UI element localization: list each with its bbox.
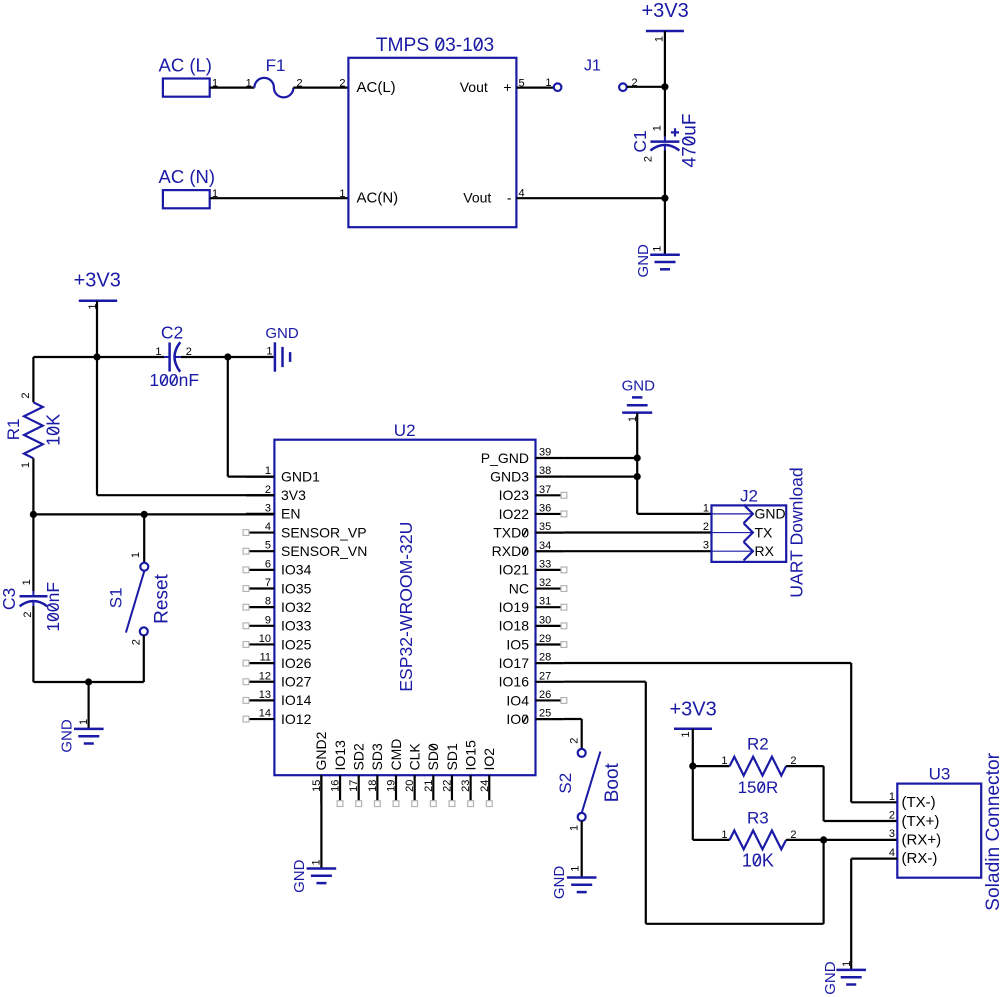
wire J1 to +3V3 node [627,86,665,88]
U2 pin 14 IO12 [246,718,274,720]
svg-text:1: 1 [654,36,666,42]
svg-text:SD1: SD1 [444,743,460,770]
power module TMPS 03-103 [376,35,494,56]
svg-text:5: 5 [265,540,271,552]
svg-text:39: 39 [539,447,551,459]
svg-text:Soladin Connector: Soladin Connector [983,752,1000,910]
switch S2 Boot [578,749,586,757]
svg-text:29: 29 [539,633,551,645]
svg-text:+3V3: +3V3 [74,269,121,291]
U2 pin 12 IO27 [246,681,274,683]
svg-text:NC: NC [509,580,529,596]
svg-text:IO21: IO21 [499,562,530,578]
svg-text:30: 30 [539,614,551,626]
U2 pin 7 IO35 [246,587,274,589]
svg-text:C2: C2 [161,323,183,343]
svg-text:IO13: IO13 [332,740,348,771]
svg-text:35: 35 [539,521,551,533]
svg-text:IO22: IO22 [499,506,530,522]
U2 pin 38 GND3 [536,476,564,478]
resistor R3 10K [693,839,730,841]
svg-text:IO33: IO33 [281,618,312,634]
svg-text:2: 2 [790,755,796,767]
svg-text:U2: U2 [394,421,416,440]
svg-text:GND: GND [59,719,76,753]
svg-text:GND1: GND1 [281,468,320,484]
U2 pin 6 IO34 [246,569,274,571]
U2 pin 35 TXD0 [536,531,564,533]
svg-text:13: 13 [259,689,271,701]
svg-text:1: 1 [339,188,345,200]
svg-text:19: 19 [386,780,398,792]
U2 pin 21 SD0 [432,775,434,803]
svg-text:S1: S1 [107,587,126,608]
wire P_GND [564,457,637,459]
svg-text:10: 10 [259,633,271,645]
wire TXD0 to J2 [564,531,712,533]
U2 pin 25 IO0 [536,718,564,720]
svg-text:4: 4 [889,847,895,859]
U2 pin 19 CMD [395,775,397,803]
wire ground to J2 [636,413,638,514]
svg-text:SD2: SD2 [351,743,367,770]
svg-text:2: 2 [339,78,345,90]
svg-text:GND: GND [291,859,308,893]
svg-text:2: 2 [265,484,271,496]
svg-text:TMPS 03-103: TMPS 03-103 [376,35,494,56]
svg-text:C1: C1 [630,130,650,152]
svg-text:Vout +: Vout + [460,79,512,95]
svg-text:27: 27 [539,670,551,682]
svg-text:1: 1 [889,791,895,803]
wire to ground [87,682,89,729]
U2 pin 4 SENSOR_VP [246,531,274,533]
svg-text:AC (L): AC (L) [159,55,212,76]
junction node S1/EN [141,511,148,518]
svg-text:GND: GND [822,961,839,995]
svg-text:1: 1 [78,719,90,725]
wire AC L to fuse [210,86,255,88]
resistor R2 150R [693,765,730,767]
svg-text:1: 1 [130,552,142,558]
svg-text:2: 2 [20,392,32,398]
svg-text:2: 2 [22,611,34,617]
svg-text:IO27: IO27 [281,674,312,690]
svg-text:GND: GND [635,244,652,278]
U2 pin 22 SD1 [451,775,453,803]
svg-text:IO23: IO23 [499,487,530,503]
junction node GND rail [85,678,92,685]
svg-text:GND3: GND3 [490,468,529,484]
svg-text:(TX+): (TX+) [902,813,940,830]
svg-text:IO4: IO4 [506,692,529,708]
U2 pin 20 CLK [414,775,416,803]
ground (GND2) [307,867,337,870]
svg-text:33: 33 [539,558,551,570]
svg-text:F1: F1 [266,56,286,75]
U2 pin 2 3V3 [246,494,274,496]
U2 pin 30 IO18 [536,625,564,627]
U2 pin 1 GND1 [246,476,274,478]
svg-text:IO2: IO2 [481,748,497,771]
svg-text:1: 1 [20,462,32,468]
U2 pin 31 IO19 [536,606,564,608]
wire IO16 route [564,681,646,683]
svg-text:R3: R3 [747,808,769,827]
svg-text:1: 1 [246,78,252,90]
wire fuse to TMPS [293,86,348,88]
wire top rail [33,356,164,358]
svg-text:10K: 10K [44,414,64,446]
svg-text:1: 1 [841,961,853,967]
U2 pin 11 IO26 [246,662,274,664]
U2 pin 37 IO23 [536,494,564,496]
svg-text:ESP32-WROOM-32U: ESP32-WROOM-32U [396,522,416,692]
U2 pin 3 EN [246,513,274,515]
svg-text:SENSOR_VP: SENSOR_VP [281,524,367,540]
U2 pin 9 IO33 [246,625,274,627]
svg-text:1: 1 [311,859,323,865]
svg-text:1: 1 [680,731,692,737]
svg-text:24: 24 [479,780,491,792]
wire C1 to GND node [664,150,666,254]
svg-text:2: 2 [790,829,796,841]
svg-text:EN: EN [281,506,300,522]
svg-text:1: 1 [652,246,664,252]
svg-text:J1: J1 [584,58,601,75]
U2 pin 24 IO2 [488,775,490,803]
svg-text:AC(L): AC(L) [357,79,396,96]
svg-text:SD3: SD3 [369,743,385,770]
U2 pin 32 NC [536,587,564,589]
svg-text:37: 37 [539,484,551,496]
svg-text:RXD0: RXD0 [492,543,530,559]
junction node +3V3/C1 [661,83,668,90]
svg-text:AC(N): AC(N) [357,190,399,207]
svg-text:2: 2 [889,809,895,821]
wire bottom rail [33,681,143,683]
U2 pin 29 IO5 [536,643,564,645]
svg-text:(RX+): (RX+) [902,831,942,848]
wire to U2 3V3 [97,494,274,496]
svg-text:S2: S2 [556,773,575,794]
U2 pin 26 IO4 [536,699,564,701]
svg-text:1: 1 [265,465,271,477]
U2 pin 10 IO25 [246,643,274,645]
svg-text:IO18: IO18 [499,618,530,634]
wire +3V3 to R2/R3 [692,729,694,840]
svg-text:26: 26 [539,689,551,701]
wire GND2 to ground [320,775,322,868]
svg-text:9: 9 [265,614,271,626]
svg-text:1: 1 [266,346,272,358]
svg-text:7: 7 [265,577,271,589]
svg-text:17: 17 [348,780,360,792]
U2 pin 34 RXD0 [536,550,564,552]
svg-text:10K: 10K [742,851,774,871]
U2 pin 5 SENSOR_VN [246,550,274,552]
ground (C1) [650,253,680,256]
svg-text:1: 1 [155,346,161,358]
wire IO0 to S2 [564,718,582,720]
svg-text:IO26: IO26 [281,655,312,671]
ground (S2) [567,876,597,879]
svg-text:CMD: CMD [388,739,404,771]
svg-text:6: 6 [265,558,271,570]
svg-text:UART Download: UART Download [787,467,807,597]
svg-text:Boot: Boot [602,762,623,802]
svg-text:1: 1 [545,77,551,89]
svg-text:CLK: CLK [406,743,422,771]
wire IO17 to U3 TX- [564,662,851,664]
wire AC N to TMPS [210,197,349,199]
svg-text:RX: RX [755,543,775,559]
wire EN rail [33,513,274,515]
svg-text:21: 21 [423,780,435,792]
svg-text:C3: C3 [0,588,19,610]
svg-text:U3: U3 [929,764,951,783]
svg-text:IO32: IO32 [281,599,312,615]
junction node R3/IO16 [820,836,827,843]
switch S1 Reset [143,514,145,562]
svg-text:GND2: GND2 [313,731,329,770]
wire +3V3 to C1 [664,31,666,137]
junction node R2 [689,763,696,770]
U2 pin 23 IO15 [470,775,472,803]
U2 pin 28 IO17 [536,662,564,664]
svg-text:IO25: IO25 [281,636,312,652]
svg-text:SENSOR_VN: SENSOR_VN [281,543,367,559]
svg-text:22: 22 [441,780,453,792]
ground (C2) [274,342,277,371]
junction node C2/GND1 [224,353,231,360]
svg-text:+3V3: +3V3 [642,0,689,22]
svg-text:GND: GND [265,325,299,342]
U2 pin 36 IO22 [536,513,564,515]
U2 pin 13 IO14 [246,699,274,701]
svg-text:2: 2 [643,156,655,162]
svg-text:16: 16 [330,780,342,792]
svg-text:(TX-): (TX-) [902,794,936,811]
junction node GND3 [634,473,641,480]
svg-text:2: 2 [703,521,709,533]
svg-text:25: 25 [539,708,551,720]
resistor R1 10K [32,357,34,402]
U2 pin 17 SD2 [358,775,360,803]
svg-text:36: 36 [539,502,551,514]
junction node +3V3 left [93,353,100,360]
svg-text:11: 11 [260,652,271,664]
svg-text:2: 2 [131,639,143,645]
ground (U3) [836,969,866,972]
svg-text:23: 23 [460,780,472,792]
svg-text:GND: GND [755,506,786,522]
svg-text:34: 34 [539,540,551,552]
svg-text:1: 1 [21,579,33,585]
svg-text:150R: 150R [738,778,779,797]
wire S2 to ground [581,821,583,878]
svg-text:18: 18 [367,780,379,792]
svg-text:1: 1 [703,502,709,514]
svg-text:1: 1 [569,825,581,831]
svg-text:8: 8 [265,596,271,608]
svg-text:Vout -: Vout - [463,190,512,206]
svg-text:R2: R2 [747,735,769,754]
svg-text:TX: TX [755,524,774,540]
wire +3V3 left vertical [96,301,98,495]
svg-text:GND: GND [551,866,568,900]
U2 pin 18 SD3 [376,775,378,803]
svg-text:+3V3: +3V3 [670,699,717,721]
svg-text:3: 3 [703,540,709,552]
svg-text:3: 3 [265,502,271,514]
U2 pin 33 IO21 [536,569,564,571]
U2 pin 39 P_GND [536,457,564,459]
svg-text:IO16: IO16 [499,674,530,690]
svg-text:R1: R1 [4,419,23,441]
svg-text:J2: J2 [740,487,758,506]
svg-text:IO5: IO5 [506,636,529,652]
svg-text:IO34: IO34 [281,562,312,578]
junction node Vout-/C1 [661,195,668,202]
svg-text:P_GND: P_GND [481,450,529,466]
svg-text:470uF: 470uF [680,114,701,168]
svg-text:3V3: 3V3 [281,487,306,503]
wire GND3 [564,476,637,478]
svg-text:IO19: IO19 [499,599,530,615]
svg-text:4: 4 [265,521,271,533]
svg-text:1: 1 [570,866,582,872]
junction node R1/EN [30,511,37,518]
junction node P_GND [634,454,641,461]
svg-text:28: 28 [539,652,551,664]
svg-text:2: 2 [186,346,192,358]
wire RX- to ground [851,857,897,859]
svg-text:GND: GND [622,377,656,394]
svg-text:IO12: IO12 [281,711,312,727]
svg-text:32: 32 [539,577,551,589]
U2 pin 15 GND2 [320,775,322,803]
svg-text:31: 31 [539,596,551,608]
ground (C3/S1) [74,728,104,731]
connector J1 pin 2 [619,83,627,91]
svg-text:Reset: Reset [151,573,172,623]
svg-text:1: 1 [721,829,727,841]
svg-text:IO17: IO17 [499,655,530,671]
svg-text:IO35: IO35 [281,580,312,596]
svg-text:12: 12 [259,670,271,682]
wire to U2 GND1 [227,357,229,477]
U2 pin 8 IO32 [246,606,274,608]
U2 pin 27 IO16 [536,681,564,683]
wire RXD0 to J2 [564,550,712,552]
ground (P_GND, inverted) [632,396,642,399]
svg-text:AC (N): AC (N) [159,166,216,187]
svg-text:1: 1 [721,755,727,767]
svg-text:38: 38 [539,465,551,477]
svg-text:1: 1 [652,125,664,131]
U2 pin 16 IO13 [339,775,341,803]
svg-text:(RX-): (RX-) [902,850,938,867]
svg-text:IO15: IO15 [462,740,478,771]
svg-text:14: 14 [259,708,271,720]
svg-text:TXD0: TXD0 [493,524,529,540]
svg-text:20: 20 [404,780,416,792]
capacitor C3 100nF [32,514,34,591]
svg-text:3: 3 [889,828,895,840]
svg-text:2: 2 [569,738,581,744]
svg-text:IO14: IO14 [281,692,312,708]
wire R2 to U3 TX+ [822,766,824,821]
